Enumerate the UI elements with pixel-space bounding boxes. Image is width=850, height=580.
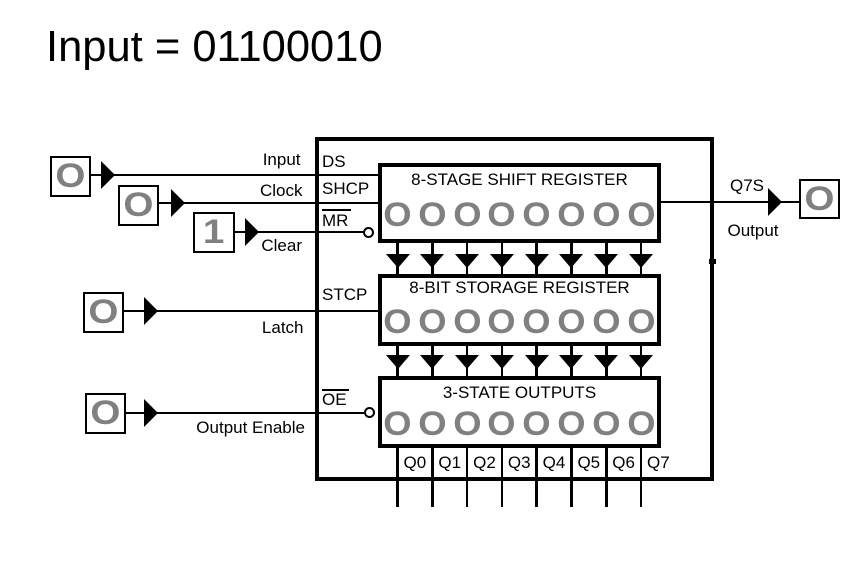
stem 3 row2	[466, 343, 469, 378]
wire: Input/DS net	[91, 174, 378, 176]
node label Output	[728, 222, 779, 239]
stem 6 row2	[570, 343, 573, 378]
pin line Q7	[640, 444, 643, 507]
wire: Q7S output net	[661, 201, 799, 203]
stem 4 row2	[501, 343, 504, 378]
node label Input	[104, 151, 301, 168]
input source box O (Clock)	[118, 185, 159, 226]
stem 5 row2	[535, 343, 538, 378]
output sink box O	[799, 179, 840, 219]
stem 7 row1	[605, 239, 608, 275]
pin label Q3	[502, 454, 537, 471]
arrow 5 row1	[525, 254, 549, 268]
pin line Q0	[396, 444, 399, 507]
stem 4 row1	[501, 239, 504, 275]
arrow 4 row2	[490, 355, 514, 369]
arrow 5 row2	[525, 355, 549, 369]
block title 8-STAGE SHIFT REGISTER	[378, 171, 661, 188]
block: 8-bit storage register	[378, 274, 661, 346]
pin label Q6	[606, 454, 641, 471]
stem 5 row1	[535, 239, 538, 275]
arrow 1 row2	[386, 355, 410, 369]
input source box O (Latch)	[83, 292, 124, 333]
stem 3 row1	[466, 239, 469, 275]
node label Clear	[104, 237, 302, 254]
wire: Output Enable/OE net	[126, 412, 364, 414]
constant 1 source box (Clear)	[193, 212, 235, 253]
wire: Clear/MR net	[233, 231, 363, 233]
stem 1 row2	[396, 343, 399, 378]
arrowhead on Q7S wire	[768, 188, 782, 216]
arrow 4 row1	[490, 254, 514, 268]
arrow 8 row2	[629, 355, 653, 369]
overline of OE	[322, 389, 349, 391]
active-low bubble on MR	[363, 227, 374, 238]
block title 8-BIT STORAGE REGISTER	[378, 279, 661, 296]
storage register bit row	[380, 305, 659, 339]
stem 7 row2	[605, 343, 608, 378]
pin label Q5	[571, 454, 606, 471]
arrowhead on Clear wire	[245, 218, 259, 246]
pin label Q0	[398, 454, 433, 471]
pin label Q1	[432, 454, 467, 471]
arrow 3 row2	[455, 355, 479, 369]
arrow 7 row2	[594, 355, 618, 369]
block: 3-state outputs	[378, 376, 661, 448]
pin line Q6	[605, 444, 608, 507]
pin line Q3	[501, 444, 504, 507]
pin label OE	[322, 391, 347, 408]
wire: Clock/SHCP net	[159, 202, 378, 204]
node label Clock	[104, 182, 303, 199]
arrow 8 row1	[629, 254, 653, 268]
pin label MR	[322, 212, 348, 229]
arrow 2 row2	[420, 355, 444, 369]
title text "Input = 01100010"	[46, 26, 383, 70]
pin label DS	[322, 153, 346, 170]
pin label Q4	[537, 454, 572, 471]
pin label Q2	[467, 454, 502, 471]
pin label SHCP	[322, 180, 369, 197]
arrow 6 row2	[559, 355, 583, 369]
block title 3-STATE OUTPUTS	[378, 384, 661, 401]
pin line Q2	[466, 444, 469, 507]
node label Output Enable	[104, 419, 305, 436]
overline of MR	[322, 209, 352, 211]
node label Latch	[104, 319, 304, 336]
arrow 1 row1	[386, 254, 410, 268]
arrowhead on Clock wire	[171, 189, 185, 217]
stem 8 row2	[640, 343, 643, 378]
pin line Q5	[570, 444, 573, 507]
IC body outline	[315, 137, 714, 481]
pin label STCP	[322, 286, 367, 303]
arrow 7 row1	[594, 254, 618, 268]
net label Q7S	[730, 177, 764, 194]
wire: Latch/STCP net	[124, 310, 378, 312]
arrowhead on Output Enable wire	[144, 399, 158, 427]
arrow 6 row1	[559, 254, 583, 268]
pin line Q1	[431, 444, 434, 507]
arrow 3 row1	[455, 254, 479, 268]
stem 2 row2	[431, 343, 434, 378]
stem 2 row1	[431, 239, 434, 275]
active-low bubble on OE	[364, 407, 375, 418]
stem 1 row1	[396, 239, 399, 275]
stem 6 row1	[570, 239, 573, 275]
pin label Q7	[641, 454, 676, 471]
arrow 2 row1	[420, 254, 444, 268]
output bit row	[380, 407, 659, 441]
block: 8-stage shift register	[378, 163, 661, 243]
arrowhead on Input wire	[101, 161, 115, 189]
junction tick on right border	[709, 259, 716, 264]
input source box O (Input)	[50, 156, 91, 197]
input source box O (Output Enable)	[85, 393, 126, 434]
pin line Q4	[535, 444, 538, 507]
stem 8 row1	[640, 239, 643, 275]
shift register bit row	[380, 198, 659, 232]
arrowhead on Latch wire	[144, 297, 158, 325]
